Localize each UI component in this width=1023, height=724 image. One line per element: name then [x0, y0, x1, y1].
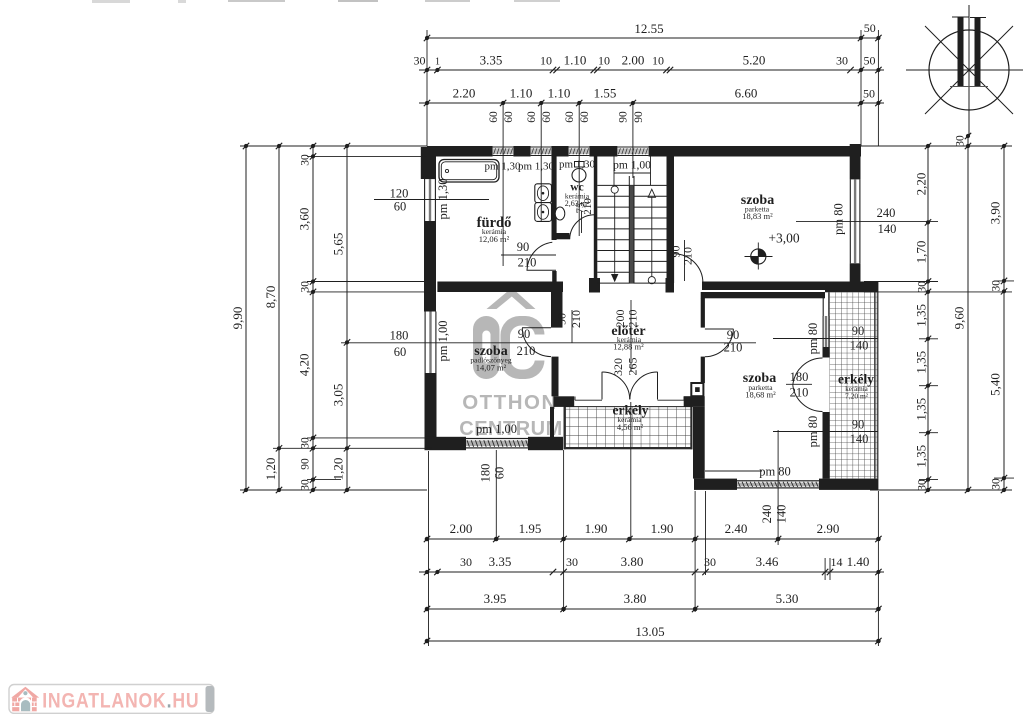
svg-text:3,05: 3,05: [331, 384, 346, 407]
room text erkely right: [838, 372, 874, 401]
svg-text:60: 60: [526, 111, 538, 123]
svg-text:pm 80: pm 80: [806, 323, 820, 355]
svg-text:12,06 m²: 12,06 m²: [479, 234, 510, 244]
label 320/265 vertical: [611, 358, 640, 377]
svg-text:3.80: 3.80: [624, 591, 647, 606]
dim col right 3,90|30|5,40|30: [988, 143, 1008, 493]
svg-text:5,65: 5,65: [331, 233, 346, 256]
svg-text:pm 80: pm 80: [806, 416, 820, 448]
svg-text:1,35: 1,35: [913, 445, 928, 468]
svg-text:10: 10: [598, 54, 610, 68]
door erkely middle double: [602, 372, 658, 400]
svg-text:50: 50: [864, 54, 876, 68]
window: top wall 60cm (bath2): [531, 147, 552, 156]
svg-text:60: 60: [493, 467, 507, 480]
svg-text:2.40: 2.40: [725, 521, 748, 536]
label 200/210 vertical: [613, 310, 640, 328]
svg-text:14: 14: [831, 555, 843, 569]
window: szoba right 240 pm80: [850, 179, 860, 263]
wall: stairs left wall: [589, 157, 600, 293]
room text erkely middle: [613, 403, 649, 433]
label 75/210 wc door vertical: [575, 198, 595, 215]
label 90/210 szoba-lower door: [724, 328, 743, 355]
svg-text:180: 180: [790, 370, 809, 384]
svg-text:1.90: 1.90: [651, 521, 674, 536]
svg-text:4,56 m²: 4,56 m²: [617, 422, 644, 432]
vertical ext line window szoba-left bottom: [495, 450, 497, 539]
window: left wall szoba 180 pm1,00: [425, 312, 436, 374]
svg-text:90: 90: [518, 327, 531, 341]
svg-text:1,20: 1,20: [331, 458, 346, 481]
ingatlanok.hu logo: [9, 685, 214, 714]
leader line 120/60 bathroom: [374, 199, 489, 201]
svg-text:30: 30: [916, 479, 928, 491]
label 90/210 szoba-top door vertical: [669, 246, 695, 266]
svg-text:3.35: 3.35: [489, 554, 512, 569]
svg-text:pm 80: pm 80: [832, 203, 846, 235]
svg-text:30: 30: [916, 281, 928, 293]
svg-text:14,07 m²: 14,07 m²: [476, 363, 507, 373]
svg-text:90: 90: [633, 111, 645, 123]
svg-text:OTTHON: OTTHON: [462, 391, 558, 414]
wc toilet: [572, 162, 586, 182]
label 90/140 lower: [850, 418, 869, 447]
wall: szoba-left bottom wall w window: [425, 437, 564, 450]
dim col 9,90: [230, 143, 249, 493]
svg-text:90: 90: [300, 458, 312, 470]
svg-text:pm 1,30: pm 1,30: [559, 159, 596, 171]
svg-text:180: 180: [479, 464, 493, 483]
svg-text:9,60: 9,60: [952, 307, 967, 330]
dimension line top chain 30|3.35|10|1.10|10|2.00|10|5.20|30: [414, 53, 885, 74]
svg-text:pm 1,30: pm 1,30: [484, 161, 521, 173]
svg-text:5.20: 5.20: [743, 53, 766, 68]
window: top wall 90cm (stairs): [617, 147, 648, 156]
corner extension verticals top: [427, 30, 878, 146]
labels pm 1,30 x3 and pm 1,00 top: [484, 159, 651, 173]
svg-text:1: 1: [435, 57, 440, 68]
svg-text:3.46: 3.46: [756, 554, 779, 569]
door szoba-top 90: [674, 254, 703, 284]
door fuerdo 90 (leaf + arc): [527, 242, 557, 270]
door erkely-right double 180: [793, 358, 823, 412]
svg-text:3.35: 3.35: [480, 53, 503, 68]
left horizontal extension lines: [240, 146, 432, 490]
svg-text:pm 80: pm 80: [759, 465, 791, 479]
watermark Otthon Centrum: [459, 291, 563, 440]
svg-text:30: 30: [955, 135, 967, 147]
bathtub: [439, 160, 499, 183]
room text wc: [565, 182, 590, 209]
wall: wc bottom wall w door gap: [552, 233, 570, 239]
window center extension lines + 60/90 labels: [488, 103, 645, 266]
erkely middle hatched floor: [564, 406, 693, 449]
svg-text:1,70: 1,70: [913, 241, 928, 264]
svg-text:3.80: 3.80: [621, 554, 644, 569]
dim line bottom 3.95|3.80|5.30: [424, 591, 882, 612]
room text szoba left: [470, 344, 511, 373]
door szoba-lower 90: [705, 329, 734, 357]
wall: szoba-lower left wall + pillar: [684, 298, 705, 479]
label 90/140 upper: [850, 324, 869, 353]
wall: left outer wall segments: [421, 147, 437, 448]
room text fuerdo: [477, 215, 512, 244]
svg-text:7,20 m²: 7,20 m²: [845, 392, 869, 401]
wall: top outer wall with window gaps: [427, 146, 861, 157]
label 180/60 bottom rotated: [479, 464, 507, 483]
svg-text:1,35: 1,35: [913, 351, 928, 374]
wall: szoba top-right outer wall: [850, 144, 861, 286]
room text szoba top: [741, 193, 774, 221]
svg-text:120: 120: [390, 187, 409, 201]
svg-text:240: 240: [877, 206, 896, 220]
svg-text:90: 90: [555, 313, 569, 325]
dim col right 2,20|1,70|30|1,35x4|30: [913, 143, 931, 493]
svg-text:10: 10: [540, 54, 552, 68]
svg-text:60: 60: [503, 111, 515, 123]
vertical line wc door labels: [581, 211, 583, 233]
wall: bathroom / wc wall: [552, 157, 557, 241]
svg-text:pm 1,30: pm 1,30: [436, 179, 450, 220]
svg-text:240: 240: [760, 505, 774, 524]
vertical line 200/210 + 320/265 + ext: [630, 300, 632, 372]
svg-text:90: 90: [618, 111, 630, 123]
svg-text:5,40: 5,40: [988, 373, 1003, 396]
wc small sink: [555, 207, 565, 220]
wall: bathroom / szoba divider (solid): [437, 282, 563, 293]
svg-text:2.00: 2.00: [622, 53, 645, 68]
svg-text:2,20: 2,20: [913, 173, 928, 196]
svg-text:210: 210: [518, 256, 537, 270]
wall: szoba-left right wall: [550, 292, 574, 438]
window: left wall bathroom 120 pm1,30: [425, 179, 436, 221]
svg-text:90: 90: [517, 240, 530, 254]
dim col 5,65|3,05|1,20: [331, 143, 351, 493]
leader 180/210 erkely-right door: [786, 383, 812, 385]
svg-text:30: 30: [836, 54, 848, 68]
fraction line 90/140 lower: [773, 431, 878, 433]
svg-text:60: 60: [488, 111, 500, 123]
wall: erkely-right boundary column: [823, 292, 830, 478]
svg-text:320: 320: [611, 358, 625, 376]
chimney/north symbol top right: [906, 5, 1023, 135]
room text szoba lower: [743, 371, 776, 400]
svg-text:1.90: 1.90: [585, 521, 608, 536]
dim line bottom 2.00|1.95|1.90|1.90|2.40|2.90: [424, 521, 882, 542]
door erkely middle threshold lines: [575, 397, 684, 401]
dimension line top chain 2.20|1.10|1.10|1.55|6.60|50: [419, 86, 884, 107]
svg-text:210: 210: [517, 344, 536, 358]
svg-text:30: 30: [300, 437, 312, 449]
dimension line top 12.55/50: [424, 21, 882, 41]
vertical ext line 240/140 bottom: [777, 430, 779, 545]
svg-text:6.60: 6.60: [735, 86, 758, 101]
label 180/210 erkely-right door: [790, 370, 809, 400]
svg-text:3.95: 3.95: [484, 591, 507, 606]
svg-text:90: 90: [852, 418, 865, 432]
svg-text:2.20: 2.20: [453, 86, 476, 101]
svg-text:12.55: 12.55: [634, 21, 663, 36]
window: top wall 60cm (batht): [493, 147, 514, 156]
svg-text:1.10: 1.10: [510, 86, 533, 101]
label 90/210 szoba-left door: [517, 327, 536, 358]
svg-text:140: 140: [850, 339, 869, 353]
wall: szoba-lower top wall B: [701, 292, 825, 298]
svg-text:60: 60: [564, 111, 576, 123]
svg-text:50: 50: [864, 21, 876, 35]
svg-text:60: 60: [394, 345, 407, 359]
svg-text:210: 210: [724, 341, 743, 355]
label 120/60: [390, 187, 409, 214]
label 240/140 right: [877, 206, 897, 236]
wall: szoba-lower bottom wall w window: [694, 479, 878, 490]
door szoba-left 90: [522, 328, 551, 357]
svg-text:INGATLANOK.HU: INGATLANOK.HU: [42, 689, 199, 713]
label 90/210 fuerdo door: [517, 240, 537, 270]
leader pm80 / 240/140 right: [796, 221, 938, 223]
balcony right outer railing lines: [875, 292, 878, 478]
svg-text:140: 140: [878, 222, 897, 236]
svg-text:1,20: 1,20: [263, 458, 278, 481]
svg-text:30: 30: [460, 555, 472, 569]
svg-text:210: 210: [790, 386, 809, 400]
stairs treads: [597, 185, 666, 283]
bathroom sinks: [535, 184, 552, 222]
room text eloter: [611, 324, 645, 352]
svg-text:9,90: 9,90: [230, 307, 245, 330]
svg-text:5.30: 5.30: [776, 591, 799, 606]
stairs walk line left (circle + arrow): [611, 186, 618, 282]
svg-text:30: 30: [300, 479, 312, 491]
svg-text:30: 30: [566, 555, 578, 569]
svg-text:210: 210: [582, 198, 594, 215]
label 90/210 vertical near eloter left: [555, 310, 584, 328]
svg-text:140: 140: [775, 505, 789, 524]
vertical line 90/210 eloter left: [571, 310, 573, 343]
svg-text:60: 60: [394, 200, 407, 214]
long leader line y=343: [374, 342, 756, 344]
level +3,00 and benchmark: [745, 231, 800, 270]
fraction line 90/140 upper: [773, 338, 878, 340]
svg-text:+3,00: +3,00: [768, 231, 799, 246]
svg-text:18,83 m²: 18,83 m²: [742, 211, 773, 221]
svg-text:210: 210: [626, 310, 640, 328]
svg-text:pm 1,00: pm 1,00: [436, 321, 450, 362]
stairs top landing / window reveal: [614, 157, 651, 186]
svg-text:210: 210: [681, 247, 695, 265]
leader pm80 szoba-lower bottom: [705, 470, 762, 472]
svg-text:pm 1,00: pm 1,00: [613, 160, 651, 172]
window: top wall 60cm (wc): [569, 147, 590, 156]
wall: stairs right / szoba top-left wall: [666, 157, 675, 293]
svg-text:2.00: 2.00: [450, 521, 473, 536]
stairs center stringer: [629, 176, 634, 284]
svg-text:60: 60: [579, 111, 591, 123]
erkely right hatched floor: [830, 292, 878, 478]
dim line bottom 13.05: [424, 624, 882, 644]
right horizontal extension lines: [861, 146, 1014, 490]
svg-text:50: 50: [863, 87, 875, 101]
svg-text:10: 10: [652, 54, 664, 68]
scan noise marks top edge: [92, 0, 560, 3]
svg-text:30: 30: [300, 281, 312, 293]
wall: szoba-top bottom wall A (extends over balcony): [702, 282, 878, 291]
svg-text:pm 1,00: pm 1,00: [476, 422, 517, 436]
svg-text:180: 180: [390, 329, 409, 343]
svg-text:210: 210: [569, 310, 583, 328]
svg-text:30: 30: [414, 54, 426, 68]
dim line bottom 30|3.35|30|3.80|30|3.46|14|1.40: [419, 554, 884, 575]
door wc 75 (leaf + arc): [570, 215, 595, 240]
svg-text:1.95: 1.95: [519, 521, 542, 536]
svg-text:3,60: 3,60: [297, 208, 312, 231]
window: erkely-right 90/140 upper: [823, 316, 829, 347]
label 180/60: [390, 329, 409, 360]
svg-text:2.90: 2.90: [817, 521, 840, 536]
leader fuerdo door 90/210: [501, 254, 556, 256]
svg-text:18,68 m²: 18,68 m²: [745, 390, 776, 400]
svg-text:30: 30: [991, 280, 1003, 292]
svg-text:265: 265: [626, 358, 640, 376]
svg-text:30: 30: [991, 478, 1003, 490]
svg-text:12,88 m²: 12,88 m²: [613, 342, 644, 352]
wall: fuerdo door jamb: [552, 271, 556, 282]
vertical line szoba-top door labels: [684, 240, 686, 281]
svg-text:1,35: 1,35: [913, 398, 928, 421]
svg-text:13.05: 13.05: [635, 624, 664, 639]
dim col right 30|9,60: [952, 133, 972, 493]
svg-text:90: 90: [852, 324, 865, 338]
svg-text:30: 30: [300, 154, 312, 166]
stairs walk line right (arrow + circle): [648, 189, 655, 284]
dim col 30|3,60|30|4,20|30|90|30: [297, 143, 317, 493]
svg-text:1.10: 1.10: [548, 86, 571, 101]
svg-text:60: 60: [541, 111, 553, 123]
svg-text:1.55: 1.55: [594, 86, 617, 101]
svg-text:3,90: 3,90: [988, 202, 1003, 225]
svg-text:8,70: 8,70: [263, 286, 278, 309]
svg-text:4,20: 4,20: [297, 354, 312, 377]
svg-text:140: 140: [850, 432, 869, 446]
bottom extension verticals: [429, 402, 879, 646]
svg-text:1.10: 1.10: [564, 53, 587, 68]
svg-text:1,35: 1,35: [913, 304, 928, 327]
dim col 8,70/1,20: [263, 143, 282, 493]
label 240/140 bottom rotated: [760, 505, 789, 524]
svg-text:pm 1,30: pm 1,30: [518, 161, 555, 173]
svg-text:1.40: 1.40: [847, 554, 870, 569]
